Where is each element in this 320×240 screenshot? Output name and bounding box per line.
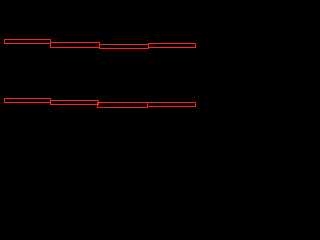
wire segment B2: [51, 101, 99, 105]
wire segment T2: [51, 43, 100, 48]
trace 1 (upper stepped signal): [5, 40, 196, 49]
wire segment B3: [98, 103, 148, 108]
wire segment T1: [5, 40, 51, 44]
wire segment T3: [100, 45, 149, 49]
trace 2 (lower stepped signal): [5, 99, 196, 108]
wire segment B4: [148, 103, 196, 107]
wire segment T4: [149, 44, 196, 48]
wire segment B1: [5, 99, 51, 103]
